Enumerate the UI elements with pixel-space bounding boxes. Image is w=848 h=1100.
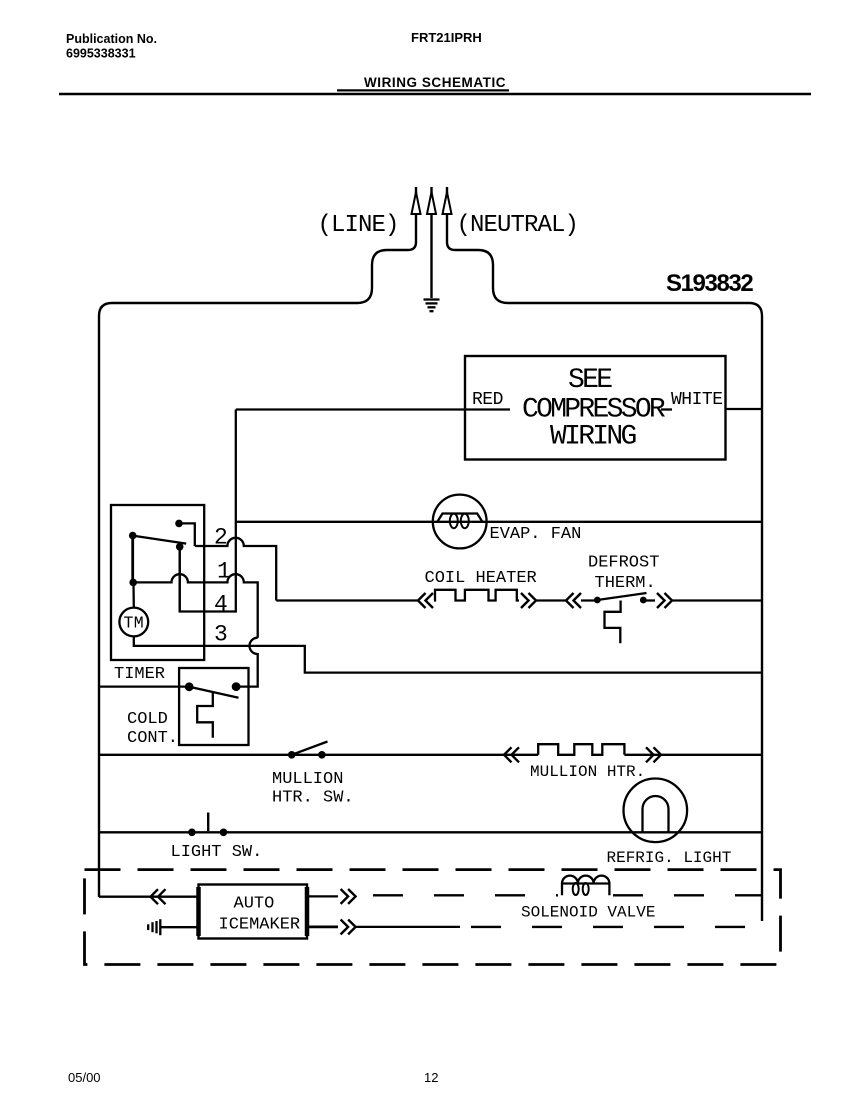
mullion heater switch dot right: [318, 751, 326, 759]
svg-text:S193832: S193832: [666, 270, 753, 297]
cold control bellows step: [197, 693, 213, 738]
svg-text:3: 3: [214, 622, 228, 648]
wire mullion heater rail left: [99, 754, 538, 756]
solenoid coil loop 2: [583, 883, 589, 895]
evap fan motor circle: [433, 495, 487, 549]
arrow terminal NEUTRAL: [443, 192, 452, 214]
wire icemaker bottom dashed: [471, 926, 757, 928]
icemaker ground symbol: [148, 919, 160, 935]
timer terminal 2 stub: [179, 523, 195, 546]
cold control box: [179, 668, 248, 745]
icemaker chevron left: [151, 889, 166, 904]
wire defrost contact to chevron: [643, 599, 655, 601]
icemaker box: [199, 885, 308, 939]
timer contact dot terminal 2: [175, 520, 183, 528]
light switch dot right: [220, 829, 228, 837]
svg-text:Publication No.: Publication No.: [66, 32, 157, 46]
evap fan winding loop 1: [450, 514, 458, 529]
wire icemaker bottom right: [307, 926, 338, 929]
svg-text:(LINE): (LINE): [318, 212, 399, 239]
wire dashed icemaker to solenoid: [373, 894, 558, 896]
wire icemaker bottom solid: [356, 926, 460, 928]
timer terminal 4 vertical wire: [179, 547, 181, 612]
svg-text:TIMER: TIMER: [114, 665, 165, 684]
defrost therm bimetal step: [605, 601, 621, 644]
svg-text:SOLENOID VALVE: SOLENOID VALVE: [521, 904, 655, 922]
refrigerator light bulb circle: [624, 779, 688, 843]
svg-text:2: 2: [214, 525, 228, 551]
wire timer terminal 2 to coil heater: [276, 599, 418, 601]
light switch plunger: [207, 813, 209, 832]
wire defrost to right border: [672, 599, 762, 601]
svg-text:DEFROST: DEFROST: [588, 554, 659, 573]
wire left border to icemaker: [99, 896, 199, 898]
solenoid valve coil: [562, 876, 609, 896]
cold control contact dot right: [232, 682, 241, 691]
mullion heater switch arm: [292, 742, 328, 755]
arrow terminal LINE: [412, 192, 421, 214]
svg-text:COLD: COLD: [127, 710, 168, 729]
svg-text:FRT21IPRH: FRT21IPRH: [411, 30, 482, 45]
wire terminal 1 hop over wire 3: [236, 638, 258, 687]
defrost therm contact dot left: [594, 597, 601, 604]
mullion heater element: [538, 744, 624, 755]
wire dashed solenoid to right border: [613, 894, 762, 896]
schematic border right half with NEUTRAL entry: [447, 213, 762, 921]
svg-text:ICEMAKER: ICEMAKER: [219, 916, 301, 935]
cold control contact dot left: [185, 682, 194, 691]
timer motor link wire: [132, 582, 135, 607]
svg-text:4: 4: [214, 592, 228, 618]
wire cold control to left border: [99, 685, 189, 687]
wire red to compressor box: [236, 408, 510, 410]
header title underline: [337, 89, 509, 91]
svg-text:THERM.: THERM.: [595, 574, 656, 593]
wire evap fan rail: [236, 521, 762, 523]
svg-text:AUTO: AUTO: [234, 895, 275, 914]
mullion heater chevron left: [504, 747, 519, 762]
wire dash compressor to white: [661, 408, 672, 410]
compressor box: [465, 356, 726, 460]
light switch dot left: [188, 829, 196, 837]
svg-text:MULLION HTR.: MULLION HTR.: [530, 763, 645, 781]
svg-text:HTR. SW.: HTR. SW.: [272, 789, 354, 808]
dashed option box: [85, 870, 781, 965]
wire light switch rail: [99, 831, 762, 833]
icemaker chevron top right: [341, 889, 356, 904]
ground symbol: [424, 300, 440, 312]
wire compressor feed vertical to timer terminal 4: [180, 410, 236, 612]
arrow terminal ground: [427, 192, 436, 214]
coil heater element: [434, 590, 519, 601]
timer wire terminal 3 from TM: [134, 636, 762, 672]
svg-text:RED: RED: [472, 390, 503, 410]
svg-text:COIL HEATER: COIL HEATER: [425, 569, 537, 588]
svg-text:CONT.: CONT.: [127, 729, 178, 748]
timer contact dot terminal 4: [176, 543, 184, 551]
wire icemaker ground: [160, 926, 198, 928]
coil heater chevron right: [521, 593, 536, 608]
svg-text:1: 1: [217, 559, 231, 585]
timer box: [111, 505, 204, 660]
svg-text:LIGHT SW.: LIGHT SW.: [171, 843, 263, 862]
cold control switch arm: [189, 687, 238, 698]
solenoid coil loop 1: [573, 883, 579, 895]
timer wire terminal 1 with hops: [133, 574, 258, 638]
coil heater chevron left: [418, 593, 433, 608]
svg-text:(NEUTRAL): (NEUTRAL): [457, 212, 579, 239]
timer contact dot common top: [129, 532, 137, 540]
defrost therm chevron right: [657, 593, 672, 608]
wire chevron to defrost contact: [581, 599, 597, 601]
timer motor TM circle: [119, 608, 148, 637]
svg-text:SEE: SEE: [568, 365, 612, 396]
mullion heater chevron right: [646, 747, 661, 762]
icemaker chevron bottom right: [341, 920, 356, 935]
svg-text:WIRING SCHEMATIC: WIRING SCHEMATIC: [364, 75, 506, 90]
wire coil heater to defrost therm: [536, 599, 567, 601]
schematic border left half with LINE entry: [99, 213, 416, 897]
evap fan winding platform: [438, 514, 483, 522]
icemaker box right thick bar: [305, 887, 310, 936]
defrost therm chevron left: [566, 593, 581, 608]
timer common vertical link: [131, 536, 134, 583]
icemaker box left thick bar: [196, 887, 201, 936]
defrost therm contact dot right: [640, 597, 647, 604]
wire icemaker top right: [307, 895, 338, 897]
defrost therm switch arm: [597, 593, 646, 600]
svg-text:MULLION: MULLION: [272, 770, 343, 789]
timer switch arm: [133, 536, 187, 544]
mullion heater switch dot left: [288, 751, 296, 759]
svg-text:05/00: 05/00: [68, 1070, 101, 1085]
header horizontal rule: [59, 93, 811, 95]
refrigerator light filament: [643, 796, 669, 832]
wire white to right border: [726, 408, 763, 410]
svg-text:WHITE: WHITE: [671, 390, 723, 410]
svg-text:WIRING: WIRING: [550, 422, 637, 453]
timer contact dot terminal 1: [129, 579, 137, 587]
timer wire terminal 2 with hop: [195, 538, 276, 601]
wire mullion heater rail right: [624, 754, 762, 756]
svg-text:12: 12: [424, 1070, 438, 1085]
svg-text:6995338331: 6995338331: [66, 47, 136, 61]
svg-text:TM: TM: [124, 614, 145, 633]
svg-text:EVAP. FAN: EVAP. FAN: [490, 525, 582, 544]
svg-text:REFRIG. LIGHT: REFRIG. LIGHT: [607, 849, 732, 867]
evap fan winding loop 2: [461, 514, 469, 529]
wire ground drop: [430, 214, 432, 298]
